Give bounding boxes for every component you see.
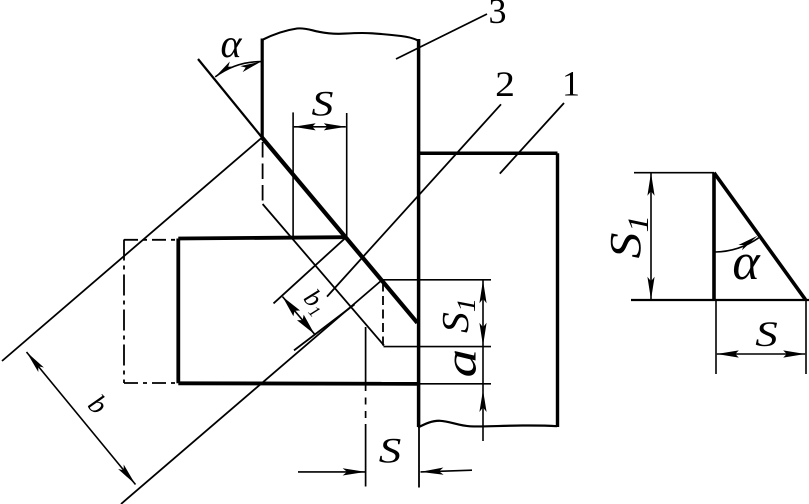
svg-text:1: 1 bbox=[562, 64, 580, 104]
upper blade 3: wavy top break line bbox=[262, 28, 418, 40]
bottom S dimension line, right part with arrow bbox=[421, 470, 473, 472]
svg-text:S: S bbox=[755, 314, 778, 354]
upper blade 3: left vertical edge bbox=[261, 39, 264, 138]
next-cut line parallel to cutting edge bbox=[263, 204, 384, 346]
leader line for part 1 bbox=[500, 103, 564, 174]
hidden dashed vertical below cut point bbox=[382, 283, 384, 347]
S1 dimension line with arrows bbox=[482, 280, 484, 346]
b dimension arrows bbox=[27, 352, 44, 372]
svg-text:α: α bbox=[732, 234, 761, 291]
svg-text:S1: S1 bbox=[434, 298, 481, 333]
alpha angle arc (main view) bbox=[215, 62, 261, 77]
strip inner edge G1 from cut corner bbox=[274, 237, 347, 303]
lower blade 1: right edge bbox=[556, 153, 559, 427]
bottom S right extension (thin continuation of blade edge) bbox=[418, 427, 420, 488]
lower blade 1: top edge bbox=[418, 152, 558, 156]
upper blade 3: inclined cutting edge bbox=[262, 138, 417, 323]
cutting edge extension line (for angle alpha) bbox=[198, 59, 262, 138]
strip bottom edge F from cut point bbox=[121, 280, 382, 504]
detail: top extension line bbox=[634, 172, 714, 174]
S1 top extension line bbox=[382, 279, 491, 281]
top S dimension: double arrow bbox=[294, 126, 346, 128]
detail: inclined cut edge (hypotenuse) bbox=[714, 173, 806, 300]
lower blade 1: wavy bottom break line bbox=[418, 421, 557, 428]
leader line for part 3 bbox=[396, 14, 487, 59]
sheet 2: dash-dot continuation box, top bbox=[124, 239, 178, 241]
S1/a middle extension line bbox=[384, 346, 492, 348]
sheet 2: bottom edge bbox=[178, 381, 418, 385]
detail: S1 dimension line with arrows bbox=[650, 173, 652, 300]
sheet 2: dash-dot continuation box, bottom bbox=[124, 382, 178, 384]
svg-text:2: 2 bbox=[495, 65, 515, 105]
svg-text:S: S bbox=[379, 431, 402, 471]
sheet 2: left edge bbox=[176, 239, 180, 384]
detail: bottom line bbox=[631, 299, 809, 301]
bottom S dimension line, left part with arrow bbox=[298, 471, 366, 473]
svg-text:S: S bbox=[312, 83, 334, 123]
sheet 2: top edge bbox=[178, 237, 346, 238]
blades shared vertical edge (right of 3 / left of 1) bbox=[417, 39, 421, 427]
detail: vertical edge of cut bbox=[712, 173, 716, 300]
sheet 2: dash-dot continuation box, left vertical bbox=[123, 240, 125, 384]
b1 dimension double arrow bbox=[283, 297, 315, 335]
a dimension line with outside arrow below bbox=[482, 346, 484, 441]
detail: alpha arc with arrow bbox=[715, 238, 759, 252]
svg-text:a: a bbox=[438, 349, 486, 378]
strip top edge E through blade vertex bbox=[2, 138, 262, 362]
svg-text:3: 3 bbox=[489, 0, 507, 31]
top S dimension: right extension line bbox=[346, 113, 348, 237]
leader line for part 2 bbox=[327, 104, 501, 296]
detail: S right extension line bbox=[805, 300, 807, 374]
a bottom extension line bbox=[418, 383, 491, 385]
strip inner edge G2 bbox=[294, 304, 355, 350]
svg-text:α: α bbox=[221, 21, 243, 66]
svg-text:b: b bbox=[82, 389, 114, 421]
top S dimension: left extension line bbox=[292, 112, 294, 237]
detail: S left extension line bbox=[715, 300, 717, 374]
detail: S dimension double arrow bbox=[717, 353, 805, 355]
hidden dashed continuation of blade left face bbox=[262, 142, 264, 204]
bottom S extension line (dashed upper part) bbox=[365, 327, 367, 487]
b dimension line bbox=[27, 352, 136, 485]
svg-text:S1: S1 bbox=[602, 215, 656, 259]
svg-text:b1: b1 bbox=[296, 284, 334, 321]
